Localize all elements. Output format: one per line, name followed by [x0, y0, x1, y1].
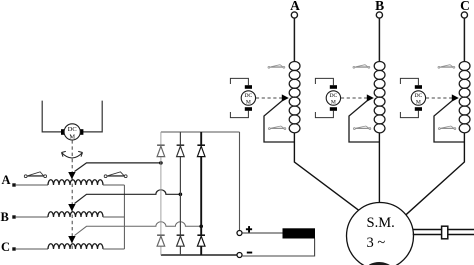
svg-text:DC: DC: [68, 126, 77, 133]
svg-text:C: C: [460, 0, 470, 13]
wire row B coil to star bus: [103, 216, 125, 218]
switch contact (gray, top) near coil LB: [353, 65, 370, 69]
wire terminal B to variac coil: [16, 216, 48, 218]
diode (top) on branch x=201.2: [197, 145, 205, 156]
wiper arrow on variac A: [68, 172, 75, 179]
junction dot rectifier input 2: [179, 193, 183, 197]
rectifier branch wire at x=160.9: [160, 132, 162, 255]
variac winding TA: [48, 180, 103, 185]
wiper arrow on variac C: [68, 236, 75, 243]
terminal B (left input): [1, 210, 16, 224]
wire wiper of LA down to coil bottom: [264, 101, 294, 143]
svg-text:M: M: [416, 100, 421, 106]
svg-text:C: C: [1, 240, 10, 254]
synchronous machine SM body: [347, 203, 414, 265]
terminal C (left input): [1, 240, 16, 254]
positive output terminal: [237, 231, 242, 236]
DC servo motor MA: [230, 78, 255, 117]
junction dot rectifier input 1: [159, 161, 163, 165]
switch contact (gray, top) near coil LA: [268, 65, 285, 69]
DC servo motor M0 (variac drive): [42, 101, 102, 141]
wire terminal C to variac coil: [16, 248, 48, 250]
svg-text:DC: DC: [330, 93, 338, 99]
switch contact (gray, bottom) near coil LA: [269, 126, 286, 130]
svg-text:M: M: [331, 100, 336, 106]
wire row C coil to star bus: [103, 248, 125, 250]
svg-text:M: M: [69, 133, 75, 140]
variac winding TB: [48, 212, 103, 217]
svg-text:S.M.: S.M.: [367, 215, 395, 231]
wire terminal A to variac coil: [16, 184, 48, 186]
wire wiper of LB down to coil bottom: [349, 101, 379, 143]
wiper arrow on coil LA: [282, 94, 289, 101]
negative output terminal: [237, 253, 242, 258]
label +: [246, 226, 252, 232]
wire coil B bottom to machine stator: [378, 133, 380, 203]
switch contact (gray, bottom) near coil LB: [354, 126, 371, 130]
rectifier branch wire at x=180.4: [179, 132, 181, 255]
knife switch S2 (row A, right of coil): [104, 172, 127, 178]
inductor coil LB (saturable reactor winding): [374, 61, 385, 132]
terminal B (top): [375, 0, 384, 18]
svg-text:A: A: [2, 173, 11, 187]
wire row A coil to star bus: [103, 184, 125, 186]
svg-text:3 ~: 3 ~: [367, 235, 386, 251]
terminal C (top): [460, 0, 470, 18]
field winding of synchronous machine (filled rectangle): [283, 228, 316, 238]
label -: [247, 252, 252, 254]
diode (bottom) on branch x=180.4: [177, 235, 185, 246]
switch contact (gray, bottom) near coil LC: [439, 126, 456, 130]
wire coil A bottom to machine stator: [294, 133, 358, 210]
wire terminal B to coil: [378, 18, 380, 61]
diode (bottom) on branch x=201.2: [197, 235, 205, 246]
wire + terminal to field winding: [242, 232, 283, 234]
wiper arrow on variac B: [68, 204, 75, 211]
wire terminal A to coil: [293, 18, 295, 61]
variac winding TC: [48, 244, 103, 249]
mechanical link (dashed) motor MC to wiper: [426, 97, 452, 99]
diode (top) on branch x=180.4: [177, 145, 185, 156]
inductor coil LC (saturable reactor winding): [459, 61, 470, 132]
diode (bottom) on branch x=160.9: [157, 235, 165, 246]
rectifier branch wire at x=201.2: [200, 132, 202, 255]
switch contact (gray, top) near coil LC: [438, 65, 455, 69]
brush arc at machine bottom: [370, 264, 389, 265]
mechanical link (dashed) motor MB to wiper: [341, 97, 367, 99]
wire wiper C to rectifier input 3 (hops over branches 1 and 2): [75, 222, 202, 236]
svg-text:B: B: [375, 0, 384, 13]
diode (top) on branch x=160.9: [157, 145, 165, 156]
terminal A (top): [290, 0, 300, 18]
wiper arrow on coil LB: [367, 94, 374, 101]
wire coil C bottom to machine stator: [406, 133, 465, 215]
junction dot rectifier input 3: [199, 225, 203, 229]
machine shaft (upper line): [413, 229, 474, 231]
wire wiper of LC down to coil bottom: [434, 101, 464, 143]
wire terminal C to coil: [463, 18, 465, 61]
svg-text:B: B: [1, 210, 9, 224]
star-point bus joining right ends of the three variac windings: [123, 185, 125, 249]
bottom DC bus (-): [161, 254, 238, 256]
inductor coil LA (saturable reactor winding): [289, 61, 300, 132]
rotation arrow (motor turning indicator): [62, 151, 83, 158]
wiper arrow on coil LC: [452, 94, 459, 101]
terminal A (left input): [2, 173, 16, 187]
svg-text:A: A: [290, 0, 300, 13]
wire wiper B to rectifier input 2 (hops over branch 1): [75, 190, 181, 204]
knife switch S1 (row A, left of coil): [24, 172, 46, 178]
slip-ring / coupling on shaft: [442, 226, 448, 239]
mechanical link (dashed) motor MA to wiper: [256, 97, 282, 99]
wire + bus down to positive terminal: [239, 132, 241, 231]
mechanical shaft (dashed) ganging the three variac wipers: [71, 140, 73, 250]
machine shaft (lower line): [413, 234, 474, 236]
wire field winding back to negative terminal: [242, 239, 315, 257]
wire wiper A to rectifier input 1: [75, 163, 161, 172]
DC servo motor MC: [400, 78, 425, 117]
svg-text:M: M: [246, 100, 251, 106]
svg-text:DC: DC: [415, 93, 423, 99]
top DC bus (+): [161, 131, 240, 133]
svg-text:DC: DC: [245, 93, 253, 99]
DC servo motor MB: [315, 78, 340, 117]
